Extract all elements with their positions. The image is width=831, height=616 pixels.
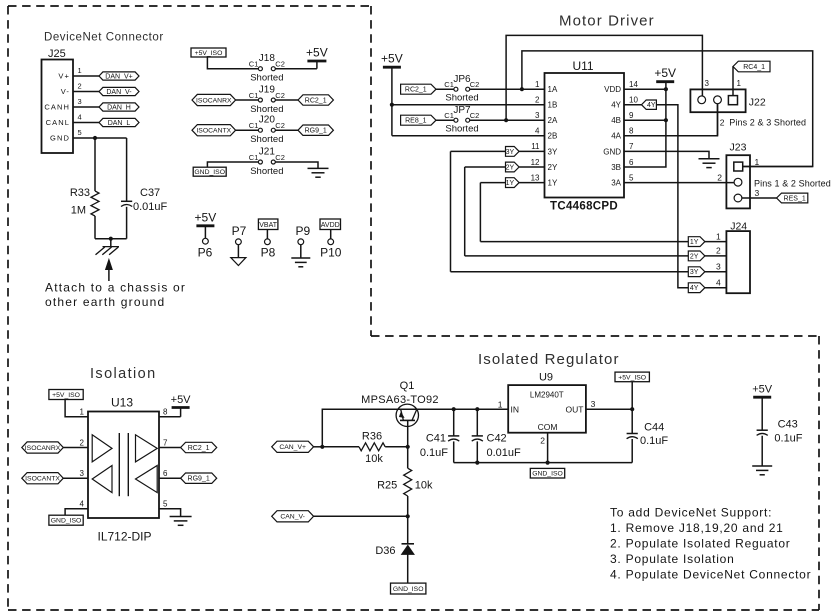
svg-text:RC4_1: RC4_1 (743, 64, 765, 71)
svg-text:4Y: 4Y (647, 102, 656, 109)
svg-text:C2: C2 (275, 121, 285, 130)
svg-text:DAN_L: DAN_L (108, 120, 131, 127)
svg-text:C1: C1 (249, 91, 259, 100)
svg-text:14: 14 (629, 80, 638, 89)
svg-text:1Y: 1Y (548, 179, 558, 188)
svg-text:4: 4 (78, 113, 82, 122)
svg-text:DAN_V+: DAN_V+ (105, 74, 132, 81)
svg-text:2Y: 2Y (506, 165, 515, 172)
svg-text:Q1: Q1 (400, 380, 415, 392)
svg-text:1Y: 1Y (690, 239, 699, 246)
svg-text:1: 1 (80, 408, 85, 417)
svg-text:C1: C1 (249, 153, 259, 162)
svg-text:GND_ISO: GND_ISO (51, 518, 82, 525)
svg-text:7: 7 (629, 142, 634, 151)
svg-text:1: 1 (755, 157, 760, 167)
svg-text:C42: C42 (487, 433, 507, 445)
svg-text:GND_ISO: GND_ISO (393, 586, 424, 593)
svg-text:U9: U9 (539, 372, 553, 384)
svg-text:4: 4 (716, 277, 721, 287)
svg-text:J19: J19 (259, 84, 276, 95)
svg-text:To add DeviceNet Support:: To add DeviceNet Support: (610, 506, 772, 520)
svg-text:3Y: 3Y (548, 147, 558, 156)
svg-text:P9: P9 (295, 224, 310, 238)
svg-text:9: 9 (629, 111, 634, 120)
svg-text:JP6: JP6 (453, 74, 471, 85)
svg-text:1. Remove J18,19,20 and 21: 1. Remove J18,19,20 and 21 (610, 521, 784, 535)
svg-text:10k: 10k (365, 453, 383, 465)
svg-text:RC2_1: RC2_1 (305, 98, 327, 105)
svg-text:7: 7 (163, 438, 168, 447)
svg-text:4Y: 4Y (611, 101, 621, 110)
svg-text:C37: C37 (140, 187, 160, 199)
svg-text:R25: R25 (377, 480, 397, 492)
svg-text:C2: C2 (275, 153, 285, 162)
svg-text:+5V_ISO: +5V_ISO (195, 50, 223, 57)
svg-text:TC4468CPD: TC4468CPD (550, 201, 618, 213)
svg-text:2: 2 (716, 246, 721, 256)
svg-text:Motor Driver: Motor Driver (559, 13, 655, 30)
svg-text:J21: J21 (259, 146, 276, 157)
svg-text:MPSA63-TO92: MPSA63-TO92 (361, 394, 439, 406)
svg-text:Attach to a chassis or: Attach to a chassis or (45, 281, 186, 295)
svg-text:GND: GND (603, 147, 621, 156)
svg-text:Shorted: Shorted (250, 104, 283, 115)
svg-text:+5V: +5V (171, 394, 192, 406)
svg-text:10k: 10k (415, 480, 433, 492)
svg-text:1: 1 (716, 231, 721, 241)
svg-text:Shorted: Shorted (250, 73, 283, 84)
svg-text:CAN_V-: CAN_V- (280, 514, 305, 521)
svg-text:+5V: +5V (752, 384, 773, 396)
svg-text:2A: 2A (548, 116, 558, 125)
svg-text:1: 1 (535, 80, 540, 89)
svg-text:C43: C43 (778, 419, 798, 431)
svg-text:CANL: CANL (46, 118, 70, 127)
svg-text:Shorted: Shorted (250, 166, 283, 177)
svg-text:AVDD: AVDD (321, 222, 340, 229)
svg-text:3: 3 (755, 188, 760, 198)
svg-text:Pins 2 & 3 Shorted: Pins 2 & 3 Shorted (729, 118, 806, 128)
svg-text:2: 2 (720, 118, 725, 128)
svg-text:+5V_ISO: +5V_ISO (52, 392, 80, 399)
svg-text:J22: J22 (749, 97, 766, 109)
svg-text:C1: C1 (249, 60, 259, 69)
svg-text:other earth ground: other earth ground (45, 295, 165, 309)
svg-text:3: 3 (705, 79, 710, 88)
svg-text:U13: U13 (111, 396, 133, 410)
svg-text:R36: R36 (362, 431, 382, 443)
svg-text:DAN_V-: DAN_V- (106, 89, 132, 96)
svg-text:RG9_1: RG9_1 (188, 476, 210, 483)
svg-text:6: 6 (163, 469, 168, 478)
svg-text:R33: R33 (70, 187, 90, 199)
svg-text:VDD: VDD (604, 85, 621, 94)
svg-text:3Y: 3Y (690, 269, 699, 276)
svg-text:0.1uF: 0.1uF (420, 447, 448, 459)
svg-text:2Y: 2Y (548, 163, 558, 172)
svg-text:RC2_1: RC2_1 (188, 445, 210, 452)
svg-text:C2: C2 (470, 80, 480, 89)
svg-text:3. Populate Isolation: 3. Populate Isolation (610, 552, 735, 566)
svg-text:2: 2 (717, 172, 722, 182)
svg-text:1A: 1A (548, 85, 558, 94)
svg-text:0.01uF: 0.01uF (487, 447, 522, 459)
svg-text:JP7: JP7 (453, 105, 471, 116)
svg-text:Isolated Regulator: Isolated Regulator (478, 351, 620, 368)
svg-text:5: 5 (163, 500, 168, 509)
svg-text:DeviceNet Connector: DeviceNet Connector (44, 32, 164, 44)
svg-text:GND_ISO: GND_ISO (194, 169, 225, 176)
svg-text:3: 3 (716, 261, 721, 271)
svg-text:Shorted: Shorted (250, 134, 283, 145)
svg-text:2. Populate Isolated Reguator: 2. Populate Isolated Reguator (610, 537, 791, 551)
svg-text:V-: V- (61, 87, 70, 96)
svg-text:J18: J18 (259, 53, 276, 64)
svg-text:4Y: 4Y (690, 285, 699, 292)
svg-text:3: 3 (78, 97, 82, 106)
svg-text:J25: J25 (48, 48, 66, 60)
svg-text:Shorted: Shorted (445, 124, 478, 135)
svg-text:3: 3 (535, 111, 540, 120)
svg-text:8: 8 (163, 408, 168, 417)
svg-text:1: 1 (498, 400, 503, 410)
svg-text:+5V: +5V (654, 66, 676, 80)
svg-text:1: 1 (737, 79, 742, 88)
svg-text:C2: C2 (275, 60, 285, 69)
svg-text:RE8_1: RE8_1 (405, 118, 427, 125)
svg-text:C1: C1 (444, 80, 454, 89)
svg-text:1M: 1M (71, 205, 86, 217)
svg-text:CAN_V+: CAN_V+ (279, 444, 306, 451)
svg-text:8: 8 (629, 127, 634, 136)
svg-text:4. Populate DeviceNet Connecto: 4. Populate DeviceNet Connector (610, 568, 811, 582)
svg-text:J20: J20 (259, 115, 276, 126)
svg-text:D36: D36 (375, 545, 395, 557)
svg-text:2: 2 (78, 82, 82, 91)
svg-text:5: 5 (78, 128, 82, 137)
svg-text:3A: 3A (611, 179, 621, 188)
svg-text:VBAT: VBAT (259, 222, 277, 229)
svg-text:OUT: OUT (566, 404, 584, 414)
svg-text:GND: GND (50, 134, 70, 143)
svg-text:C2: C2 (470, 111, 480, 120)
svg-text:V+: V+ (58, 72, 70, 81)
svg-text:P7: P7 (232, 224, 247, 238)
svg-text:2: 2 (540, 436, 545, 446)
svg-text:2Y: 2Y (690, 253, 699, 260)
svg-text:P6: P6 (198, 246, 213, 260)
svg-text:C2: C2 (275, 91, 285, 100)
svg-text:RES_1: RES_1 (784, 196, 806, 203)
svg-text:0.01uF: 0.01uF (133, 201, 168, 213)
svg-text:11: 11 (531, 142, 540, 151)
svg-text:RC2_1: RC2_1 (405, 87, 427, 94)
svg-text:2: 2 (535, 96, 540, 105)
svg-text:C44: C44 (644, 422, 664, 434)
svg-text:2B: 2B (548, 132, 558, 141)
svg-text:5: 5 (629, 173, 634, 182)
svg-text:Shorted: Shorted (445, 93, 478, 104)
svg-text:0.1uF: 0.1uF (640, 435, 668, 447)
svg-text:1B: 1B (548, 101, 558, 110)
svg-text:C41: C41 (426, 433, 446, 445)
svg-text:1Y: 1Y (506, 180, 515, 187)
svg-text:GND_ISO: GND_ISO (532, 471, 563, 478)
svg-text:ISOCANRX: ISOCANRX (25, 445, 61, 452)
svg-text:3: 3 (80, 469, 85, 478)
svg-text:10: 10 (629, 96, 638, 105)
svg-text:COM: COM (538, 422, 558, 432)
svg-text:LM2940T: LM2940T (530, 391, 564, 400)
svg-text:13: 13 (531, 173, 540, 182)
svg-text:ISOCANTX: ISOCANTX (25, 476, 60, 483)
svg-text:ISOCANRX: ISOCANRX (196, 97, 232, 104)
svg-text:ISOCANTX: ISOCANTX (196, 128, 231, 135)
svg-text:P10: P10 (320, 246, 342, 260)
svg-text:DAN_H: DAN_H (107, 105, 131, 112)
svg-text:J24: J24 (730, 220, 747, 232)
svg-text:2: 2 (80, 438, 85, 447)
svg-text:IN: IN (511, 404, 520, 414)
svg-text:4B: 4B (611, 116, 621, 125)
svg-text:3: 3 (591, 399, 596, 409)
svg-text:Isolation: Isolation (90, 366, 157, 382)
svg-text:RG9_1: RG9_1 (305, 128, 327, 135)
svg-text:C1: C1 (444, 111, 454, 120)
svg-text:3B: 3B (611, 163, 621, 172)
svg-text:4: 4 (535, 127, 540, 136)
svg-text:1: 1 (78, 66, 82, 75)
svg-text:4A: 4A (611, 132, 621, 141)
svg-text:+5V: +5V (195, 210, 217, 224)
svg-text:3Y: 3Y (506, 149, 515, 156)
svg-text:6: 6 (629, 158, 634, 167)
svg-text:+5V_ISO: +5V_ISO (618, 374, 646, 381)
svg-text:IL712-DIP: IL712-DIP (97, 530, 151, 544)
svg-text:12: 12 (531, 158, 540, 167)
svg-text:P8: P8 (261, 246, 276, 260)
svg-text:0.1uF: 0.1uF (774, 433, 802, 445)
svg-text:J23: J23 (730, 142, 747, 154)
svg-text:U11: U11 (572, 59, 593, 73)
svg-text:+5V: +5V (381, 52, 403, 66)
svg-text:C1: C1 (249, 121, 259, 130)
svg-text:Pins 1 & 2 Shorted: Pins 1 & 2 Shorted (754, 179, 831, 189)
svg-text:4: 4 (80, 500, 85, 509)
svg-text:CANH: CANH (44, 103, 70, 112)
svg-text:+5V: +5V (306, 46, 328, 60)
